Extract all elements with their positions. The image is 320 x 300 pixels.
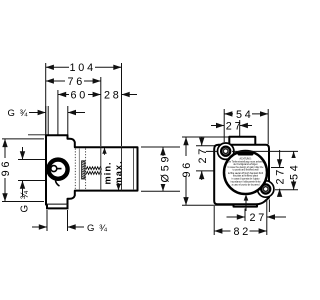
svg-text:¾: ¾ bbox=[99, 223, 108, 234]
extension lines bottom bbox=[268, 200, 270, 213]
dimension 96 left bbox=[0, 139, 44, 202]
svg-text:54: 54 bbox=[288, 162, 300, 180]
svg-text:a caso el punto de la pared: a caso el punto de la pared bbox=[232, 184, 260, 187]
svg-text:hansgrohe: hansgrohe bbox=[239, 152, 252, 156]
plug black ring bbox=[48, 160, 67, 186]
svg-text:27: 27 bbox=[250, 212, 268, 224]
svg-text:28: 28 bbox=[104, 90, 122, 102]
top tab bbox=[229, 137, 255, 145]
bottom tab bbox=[234, 192, 258, 207]
dimension G 3/4 bottom bbox=[32, 210, 108, 234]
svg-text:In case the design of gain rol: In case the design of gain roller the bbox=[228, 166, 264, 169]
screw bottom-right bbox=[261, 184, 270, 193]
dimension 28 (outside arrows) bbox=[104, 90, 137, 102]
svg-text:der Fertigwand erfolgen: der Fertigwand erfolgen bbox=[233, 163, 258, 166]
svg-text:Die Tiefeneinstellung muss anh: Die Tiefeneinstellung muss anhand bbox=[228, 160, 264, 163]
svg-text:to punkt and finished wall: to punkt and finished wall bbox=[233, 169, 259, 172]
svg-text:76: 76 bbox=[68, 76, 86, 88]
svg-text:fits plais at finished paroi: fits plais at finished paroi bbox=[233, 175, 259, 178]
top-left screw boss bbox=[218, 143, 234, 159]
screw top-left bbox=[221, 147, 230, 156]
svg-text:G ¾: G ¾ bbox=[20, 189, 31, 212]
cartridge crosshatch bar bbox=[82, 161, 85, 179]
central protection cover circle bbox=[224, 151, 267, 194]
svg-text:min.: min. bbox=[102, 161, 112, 184]
svg-text:27: 27 bbox=[226, 121, 244, 133]
dimension 27 top (outside arrows) bbox=[211, 121, 252, 133]
max line and label bbox=[121, 148, 123, 191]
wire: extension line max (x=121.5) bbox=[121, 63, 123, 146]
svg-text:incordance il alla parete fini: incordance il alla parete finita bbox=[231, 180, 261, 183]
svg-text:96: 96 bbox=[0, 159, 12, 177]
valve body flange (side view) bbox=[46, 135, 138, 204]
svg-text:82: 82 bbox=[234, 226, 252, 238]
svg-text:Ø59: Ø59 bbox=[160, 154, 172, 183]
label G 3/4 top with arrows bbox=[8, 106, 86, 135]
wire: extension line flange left edge up bbox=[45, 63, 47, 137]
wire: extension line min (x=100.8) bbox=[100, 77, 102, 146]
bottom port protrusion bbox=[47, 205, 68, 209]
svg-text:¾: ¾ bbox=[20, 108, 29, 119]
wire: wall line x=59.7 bbox=[57, 90, 59, 135]
dimension 27 right side bbox=[271, 150, 287, 197]
dimension 54 right side bbox=[206, 151, 300, 189]
svg-text:27: 27 bbox=[275, 167, 287, 185]
dimension 54 top bbox=[224, 109, 268, 121]
dimension Ø59 bbox=[141, 147, 180, 191]
svg-text:60: 60 bbox=[71, 90, 89, 102]
min line and label bbox=[100, 148, 102, 191]
right figure body bbox=[214, 137, 274, 207]
dimension G 3/4 left side port bbox=[18, 147, 46, 213]
bottom tab arrow bbox=[244, 194, 249, 211]
svg-text:54: 54 bbox=[236, 109, 254, 121]
dimension 76 bbox=[46, 76, 101, 88]
dimension 60 bbox=[58, 90, 101, 102]
svg-text:G: G bbox=[87, 223, 94, 234]
thread extension lines top port bbox=[45, 106, 47, 135]
svg-text:104: 104 bbox=[70, 62, 96, 74]
dimension 96 right figure bbox=[181, 137, 233, 205]
svg-text:ACHTUNG:: ACHTUNG: bbox=[240, 158, 252, 161]
svg-text:in casa di questa de il giato: in casa di questa de il giato bbox=[232, 178, 260, 181]
dimension 27 left of right figure bbox=[196, 138, 219, 181]
svg-text:96: 96 bbox=[181, 160, 193, 178]
dimension 82 bottom bbox=[214, 226, 267, 238]
extension lines top bbox=[223, 109, 225, 142]
main square bbox=[214, 145, 269, 205]
dimension 27 bottom bbox=[227, 212, 287, 224]
svg-text:G: G bbox=[8, 108, 15, 119]
spring zigzag bbox=[86, 167, 102, 175]
cylinder interior lines bbox=[133, 148, 135, 190]
bottom-right screw boss bbox=[258, 181, 274, 197]
svg-text:la fifra saviat off lingh hanp: la fifra saviat off lingh hanparti fitch bbox=[228, 172, 264, 175]
dimension 104 bbox=[46, 62, 122, 74]
svg-text:max.: max. bbox=[114, 160, 124, 185]
svg-text:27: 27 bbox=[197, 146, 209, 164]
